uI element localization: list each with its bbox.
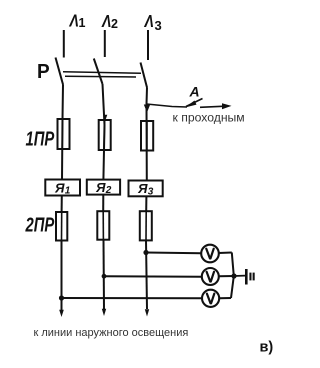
switch P blade pole2 — [94, 59, 103, 85]
switch A blade arrowhead — [185, 101, 197, 108]
svg-text:Я: Я — [137, 181, 148, 196]
junction bus-ground — [231, 273, 236, 278]
wire branch to switch A — [147, 104, 188, 107]
svg-text:2: 2 — [111, 17, 118, 31]
wire V2 to bus — [219, 275, 234, 277]
svg-text:2ПР: 2ПР — [25, 213, 55, 236]
svg-text:3: 3 — [148, 187, 154, 198]
box Ya2 — [87, 180, 120, 195]
arrow down on phase2 feed — [104, 115, 108, 121]
svg-text:А: А — [189, 84, 200, 100]
arrow down on phase3 feed — [144, 105, 150, 113]
wire phase1 bottom — [61, 241, 63, 311]
wire phase2 mid2 — [102, 195, 104, 211]
fuse 2PR pole1 — [56, 212, 67, 241]
voltmeter PV1 — [201, 245, 219, 263]
wire V1 to bus — [219, 252, 232, 255]
arrow phase3 down — [145, 309, 149, 316]
wire phase2 upper — [104, 30, 106, 57]
wire branch phase2 to voltmeter V2 — [104, 275, 202, 278]
svg-text:к линии наружного освещения: к линии наружного освещения — [34, 327, 189, 339]
fuse 2PR pole3 — [140, 211, 152, 240]
arrow phase2 down — [102, 309, 106, 316]
wire phase2 bottom — [103, 240, 106, 310]
switch P linkage bar lower — [65, 75, 136, 78]
arrow to passthrough lamps — [200, 106, 225, 107]
wire phase3 mid2 — [145, 196, 147, 211]
ground symbol — [234, 269, 255, 285]
wire V3 to bus — [219, 297, 231, 299]
box Ya3 — [129, 181, 163, 197]
box Ya1 — [45, 180, 80, 196]
switch P blade pole3 — [141, 63, 148, 88]
svg-text:1: 1 — [79, 16, 86, 30]
wire branch phase1 to voltmeter V3 — [62, 297, 203, 299]
junction phase1 — [59, 295, 64, 300]
svg-text:Λ: Λ — [144, 11, 154, 31]
fuse 1PR pole3 — [141, 121, 153, 151]
svg-text:1: 1 — [65, 186, 71, 197]
node L2 label — [101, 11, 118, 31]
fuse 1PR pole2 — [99, 120, 111, 150]
svg-text:1ПР: 1ПР — [26, 127, 55, 150]
junction phase2 — [102, 274, 107, 279]
wire right bus — [231, 253, 234, 299]
node L3 label — [144, 11, 162, 33]
svg-text:в): в) — [260, 340, 274, 356]
svg-text:к проходным: к проходным — [173, 111, 245, 125]
fuse 2PR pole2 — [97, 211, 109, 240]
svg-text:3: 3 — [155, 18, 162, 33]
wire branch phase3 to voltmeter V1 — [146, 252, 201, 255]
wire phase1 mid2 — [61, 195, 63, 212]
svg-text:Λ: Λ — [69, 11, 79, 31]
arrow phase1 down — [59, 310, 64, 317]
switch P linkage bar upper — [63, 72, 141, 73]
node L1 label — [69, 11, 86, 31]
junction phase3 — [143, 250, 148, 255]
wire phase3 lower — [146, 88, 149, 181]
svg-text:Λ: Λ — [101, 11, 111, 31]
svg-text:Я: Я — [54, 181, 65, 196]
voltmeter PV3 — [202, 290, 219, 307]
svg-text:2: 2 — [105, 185, 112, 196]
fuse 1PR pole1 — [58, 119, 70, 149]
wire phase2 lower — [103, 84, 105, 180]
wire phase1 lower — [62, 85, 63, 181]
wire phase1 upper — [63, 30, 65, 58]
switch A blade — [186, 99, 203, 107]
wire phase3 upper — [147, 30, 149, 60]
svg-text:Р: Р — [37, 61, 50, 84]
wire phase3 bottom — [146, 241, 147, 310]
voltmeter PV2 — [202, 268, 219, 285]
switch P blade pole1 — [56, 58, 64, 85]
svg-text:Я: Я — [95, 180, 106, 195]
